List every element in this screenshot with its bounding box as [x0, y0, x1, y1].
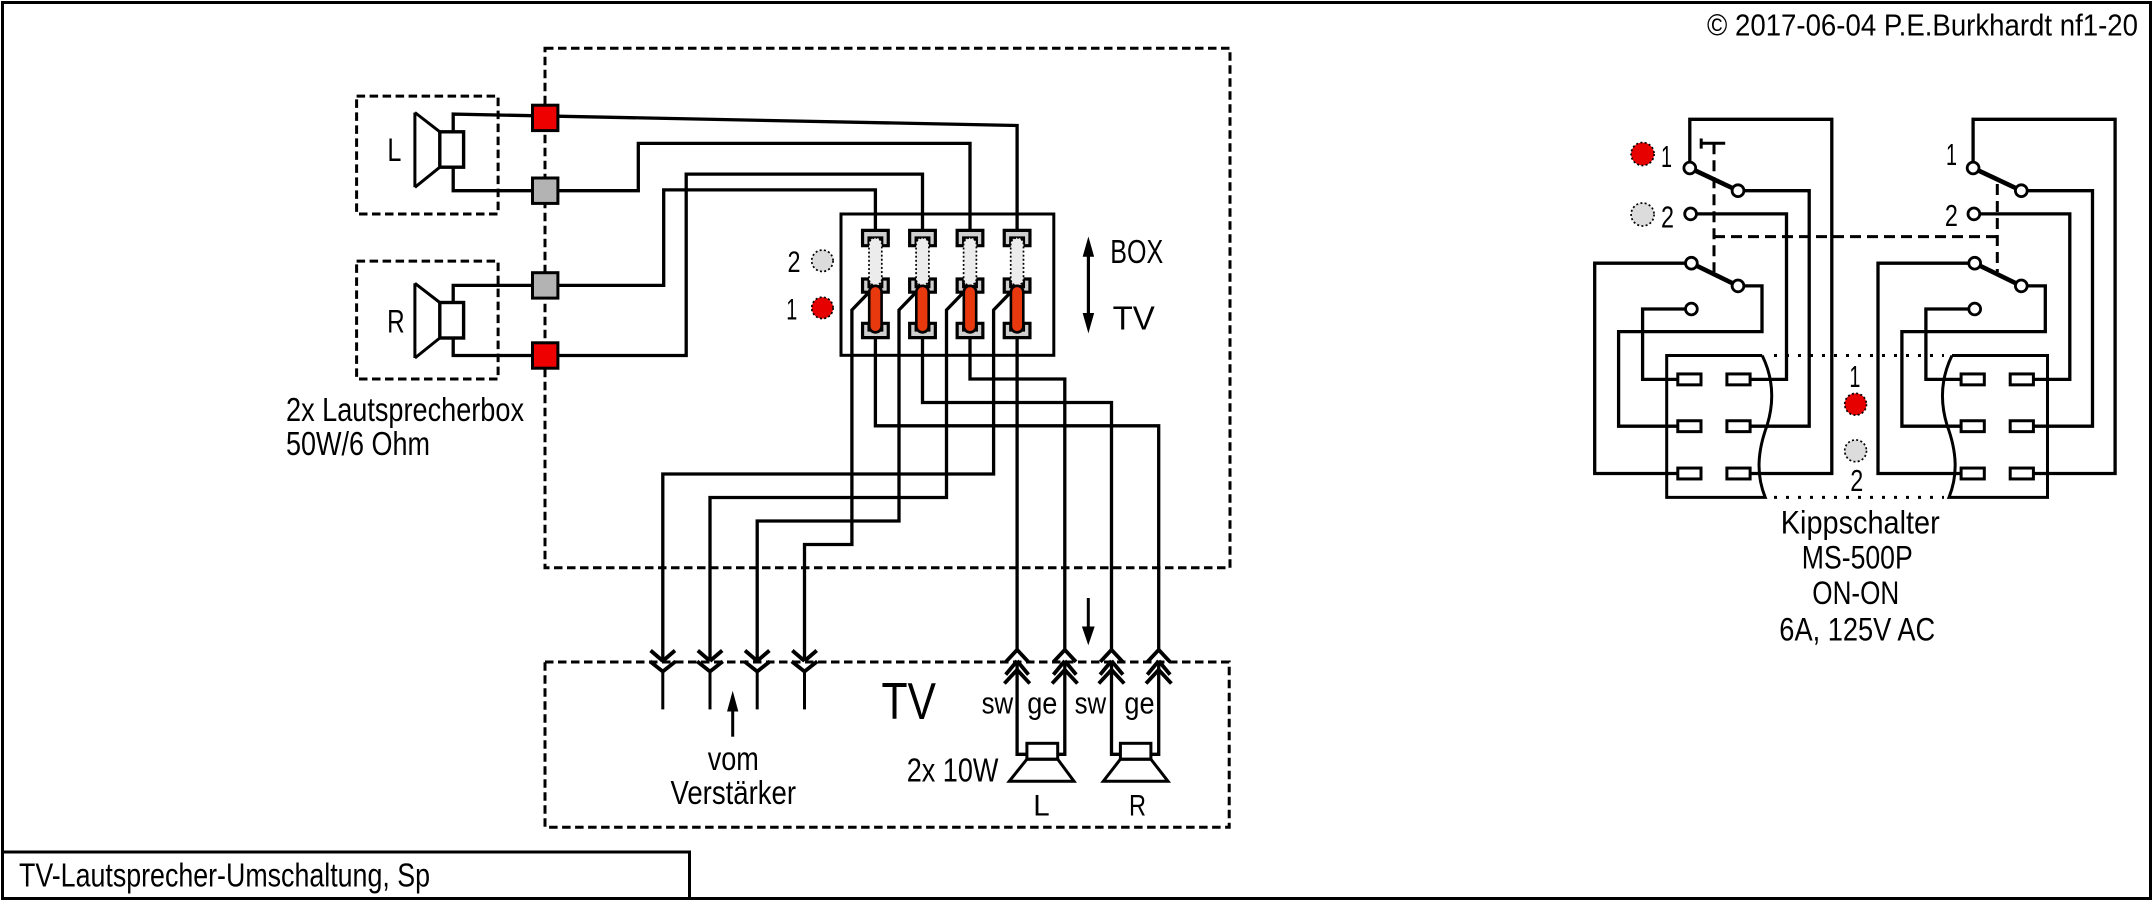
- svg-text:2: 2: [788, 246, 801, 279]
- svg-text:L: L: [1033, 789, 1049, 822]
- svg-text:2: 2: [1945, 198, 1958, 233]
- svg-text:Verstärker: Verstärker: [671, 774, 797, 811]
- svg-text:50W/6 Ohm: 50W/6 Ohm: [286, 425, 430, 462]
- svg-text:1: 1: [786, 294, 797, 327]
- svg-text:BOX: BOX: [1110, 233, 1163, 270]
- svg-text:L: L: [387, 132, 401, 168]
- svg-text:ge: ge: [1124, 686, 1154, 721]
- svg-text:2: 2: [1850, 463, 1863, 498]
- svg-text:sw: sw: [982, 686, 1014, 721]
- svg-text:ON-ON: ON-ON: [1812, 575, 1899, 611]
- svg-text:sw: sw: [1075, 686, 1107, 721]
- svg-text:2x Lautsprecherbox: 2x Lautsprecherbox: [286, 391, 524, 428]
- svg-text:R: R: [387, 303, 405, 339]
- svg-text:© 2017-06-04 P.E.Burkhardt nf1: © 2017-06-04 P.E.Burkhardt nf1-20: [1707, 8, 2138, 43]
- svg-text:MS-500P: MS-500P: [1802, 539, 1913, 575]
- svg-text:6A, 125V AC: 6A, 125V AC: [1779, 611, 1935, 647]
- svg-text:vom: vom: [708, 740, 759, 777]
- svg-text:2x 10W: 2x 10W: [907, 752, 999, 789]
- svg-text:TV: TV: [882, 673, 937, 731]
- svg-text:Kippschalter: Kippschalter: [1781, 504, 1940, 540]
- svg-text:1: 1: [1946, 137, 1957, 172]
- svg-text:2: 2: [1661, 199, 1674, 234]
- svg-text:TV-Lautsprecher-Umschaltung, S: TV-Lautsprecher-Umschaltung, Sp: [19, 857, 430, 894]
- svg-text:ge: ge: [1027, 686, 1057, 721]
- svg-text:1: 1: [1849, 359, 1860, 394]
- svg-text:TV: TV: [1113, 300, 1155, 337]
- svg-text:1: 1: [1661, 139, 1672, 174]
- svg-text:R: R: [1129, 789, 1146, 822]
